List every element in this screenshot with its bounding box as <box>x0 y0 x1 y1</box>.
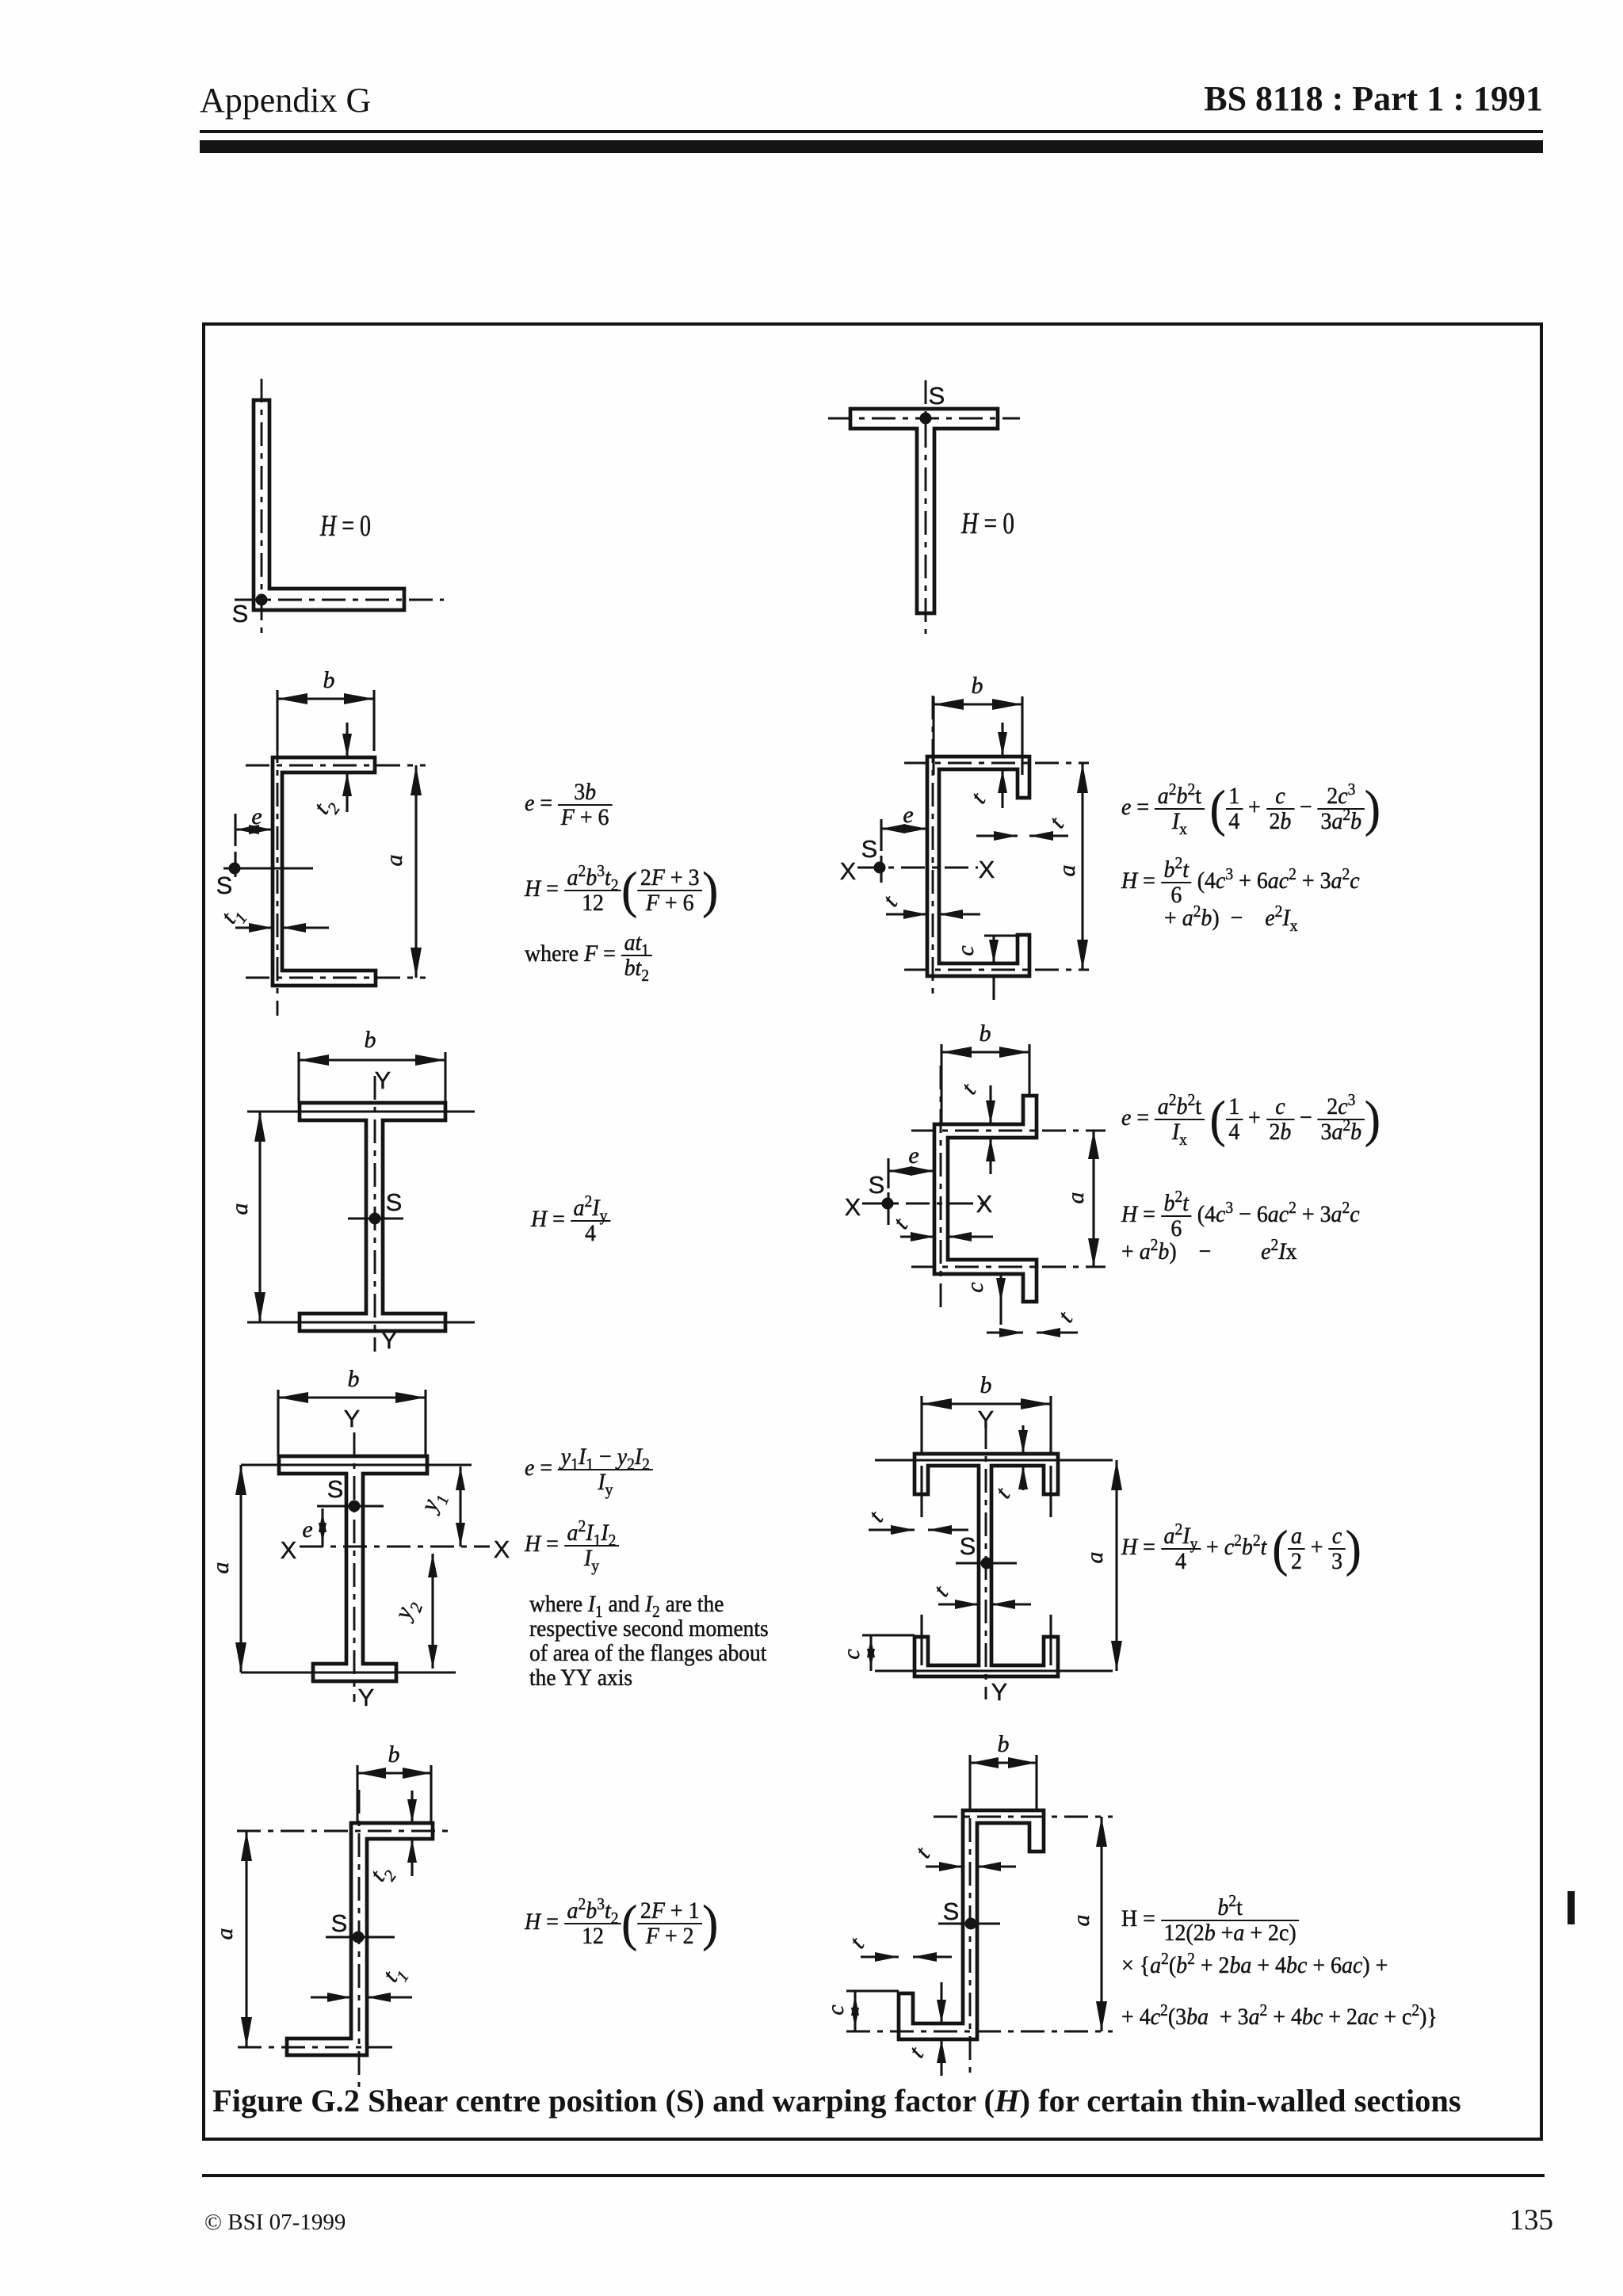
label a (I-section) <box>227 1203 253 1215</box>
formula H line3 (lipped Z row5 right) <box>1121 2005 1438 2029</box>
svg-text:H = 0: H = 0 <box>319 509 371 543</box>
centerline of bottom flange (I-section) <box>247 1321 475 1323</box>
formula H (unequal I row4 left) <box>525 1521 619 1570</box>
label S (unequal I) <box>327 1475 344 1503</box>
svg-text:X: X <box>845 1193 861 1221</box>
svg-text:a: a <box>212 1928 238 1940</box>
formula e (lipped channel inward row2 right) <box>1121 784 1381 835</box>
dimension b (channel): line and arrows <box>277 693 374 704</box>
svg-text:Y: Y <box>375 1066 391 1094</box>
svg-text:e: e <box>903 802 913 828</box>
svg-text:t: t <box>990 1482 1015 1503</box>
formula H (lipped I row4 right) <box>1121 1524 1361 1575</box>
svg-text:b: b <box>980 1372 992 1398</box>
svg-text:t: t <box>888 1213 913 1234</box>
label e (lipped channel inward) <box>903 802 913 828</box>
centerline of channel bottom flange <box>246 977 426 979</box>
shear centre dot S (lipped Z) <box>965 1918 977 1930</box>
label t web (lipped I) <box>928 1581 953 1601</box>
formula H (Z row5 left) <box>525 1898 718 1950</box>
dimension y2 (unequal I) <box>428 1554 437 1669</box>
formula H line2 (lipped channel outward row3 right) <box>1121 1240 1296 1264</box>
svg-text:t: t <box>910 1842 935 1863</box>
dimension c lip (lipped channel outward) <box>987 1274 1020 1325</box>
formula H line1 (lipped channel inward row2 right) <box>1121 858 1360 907</box>
svg-text:b: b <box>980 1020 991 1047</box>
svg-text:t2: t2 <box>308 791 344 822</box>
dimension b (Z): extension lines <box>357 1765 431 1823</box>
shear centre dot S (unequal I) <box>349 1501 361 1512</box>
label b (I-section) <box>365 1027 376 1053</box>
axis line through S (lipped Z) <box>938 1922 1000 1924</box>
label t flange (lipped I) <box>990 1482 1015 1503</box>
svg-text:S: S <box>327 1475 344 1503</box>
dimension t1 (Z web thickness) arrows <box>311 1993 412 2002</box>
label t lip (lipped channel inward) <box>1044 812 1069 833</box>
label X right (unequal I) <box>494 1535 510 1563</box>
axis line through S (channel) <box>223 867 313 869</box>
dimension b (unequal I): line and arrows <box>278 1392 426 1403</box>
svg-text:S: S <box>232 600 249 627</box>
label S (angle) <box>232 600 249 627</box>
svg-text:S: S <box>929 382 945 410</box>
centerline of bottom flange (unequal I) <box>241 1671 456 1673</box>
label Y top (lipped I) <box>978 1405 995 1433</box>
svg-text:a: a <box>1063 1192 1089 1204</box>
axis X-X (lipped channel inward) <box>857 867 978 869</box>
shear centre dot S (lipped channel inward) <box>874 862 886 874</box>
formula H (I-section row3 left) <box>531 1196 610 1245</box>
svg-text:S: S <box>216 871 233 899</box>
dimension b (lipped Z): line and arrows <box>970 1757 1037 1768</box>
svg-text:S: S <box>331 1909 348 1937</box>
section lipped channel outward (row3 right) outline <box>934 1096 1037 1302</box>
centerline of top flange (lipped channel inward) <box>904 762 1089 765</box>
shear centre dot S (tee) <box>920 413 932 425</box>
dimension b (Z): line and arrows <box>357 1768 431 1779</box>
centerline vertical of channel web <box>277 696 279 1016</box>
section unequal-flange I (row4 left) outline <box>279 1456 427 1681</box>
label b (lipped channel outward) <box>980 1020 991 1047</box>
svg-text:X: X <box>840 857 857 885</box>
header left: Appendix G <box>200 80 371 120</box>
centerline of channel top flange <box>246 765 426 767</box>
label Y top (I-section) <box>375 1066 391 1094</box>
dimension t bottom flange arrows (lipped Z) <box>937 1982 946 2076</box>
svg-text:a: a <box>381 855 407 867</box>
footer rule <box>202 2174 1545 2177</box>
svg-text:t: t <box>1044 812 1069 833</box>
label y2 (unequal I) <box>388 1595 426 1627</box>
dimension a (unequal I) <box>235 1465 246 1672</box>
dimension t lip arrows (lipped Z) <box>861 1952 952 1962</box>
svg-text:t: t <box>863 1506 888 1527</box>
svg-text:t: t <box>903 2042 929 2062</box>
label S (lipped channel outward) <box>869 1171 885 1199</box>
formula e (unequal I row4 left) <box>525 1445 653 1494</box>
dimension a (channel) <box>411 765 422 978</box>
formula H line1 (lipped Z row5 right) <box>1121 1896 1299 1945</box>
label c (lipped channel outward) <box>962 1282 988 1292</box>
axis line through S (lipped I) <box>956 1562 1017 1564</box>
label t1 (Z) <box>377 1959 412 1990</box>
dimension b (lipped channel inward): extension lines <box>934 696 1022 775</box>
section lipped Z (row5 right) outline <box>899 1810 1044 2039</box>
svg-text:c: c <box>953 945 979 955</box>
svg-text:S: S <box>861 835 878 863</box>
svg-text:Y: Y <box>381 1326 398 1354</box>
axis line through S (unequal I) <box>317 1505 384 1507</box>
centerline of Z bottom flange <box>238 2046 395 2049</box>
svg-text:e: e <box>302 1516 312 1543</box>
label a (lipped channel inward) <box>1054 865 1080 877</box>
label Y bottom (unequal I) <box>358 1684 375 1711</box>
dimension t2 (Z flange thickness) arrows <box>407 1791 417 1876</box>
label X left (lipped channel outward) <box>845 1193 861 1221</box>
svg-text:y1: y1 <box>414 1488 453 1519</box>
dimension t web arrows (lipped I) <box>938 1600 1031 1609</box>
svg-text:e: e <box>251 803 262 830</box>
dimension t web arrows (lipped Z) <box>926 1862 1016 1871</box>
label S (lipped Z) <box>943 1897 960 1925</box>
label Y top (unequal I) <box>344 1405 361 1432</box>
label t1 (channel) <box>216 901 250 932</box>
label c (lipped I) <box>838 1649 865 1659</box>
header right: BS 8118 : Part 1 : 1991 <box>1204 78 1543 119</box>
centerline of top flange (I-section) <box>247 1110 475 1112</box>
label X left (lipped channel inward) <box>840 857 857 885</box>
axis Y-Y vertical centerline (unequal I) <box>353 1432 356 1702</box>
svg-text:b: b <box>998 1731 1010 1757</box>
shear centre dot S (channel) <box>229 863 241 875</box>
section tee T (row1 right) outline <box>850 409 998 613</box>
header thin rule <box>200 130 1543 133</box>
svg-text:X: X <box>494 1535 510 1563</box>
dimension b (channel): extension lines <box>277 690 374 751</box>
note text (unequal I row4 left) <box>529 1592 769 1691</box>
axis Y-Y vertical centerline (I-section) <box>374 1076 376 1352</box>
dimension t flange arrows (lipped channel outward) <box>986 1085 995 1174</box>
label X left (unequal I) <box>281 1536 297 1564</box>
label e (channel) <box>251 803 262 830</box>
dimension t flange arrow (lipped channel inward) <box>998 723 1007 808</box>
label S (lipped I) <box>960 1532 976 1560</box>
svg-text:a: a <box>227 1203 253 1215</box>
label t web (lipped Z) <box>910 1842 935 1863</box>
label b (lipped Z) <box>998 1731 1010 1757</box>
label Y bottom (lipped I) <box>991 1678 1008 1706</box>
dimension b (lipped channel outward): line and arrows <box>941 1047 1029 1058</box>
dimension t web arrows (lipped channel outward) <box>900 1232 993 1241</box>
dimension t left lip arrows (lipped I) <box>869 1525 968 1535</box>
section angle L (row1 left) outline <box>254 400 404 610</box>
svg-text:X: X <box>979 856 995 883</box>
section channel (row2 left) outline <box>273 757 376 986</box>
svg-text:S: S <box>869 1171 885 1199</box>
centerline of top flange (unequal I) <box>241 1463 472 1466</box>
section Z (row5 left) outline <box>287 1823 433 2055</box>
dimension b (unequal I): extension lines <box>278 1390 426 1456</box>
svg-text:Y: Y <box>358 1684 375 1711</box>
label a (Z) <box>212 1928 238 1940</box>
centerline of top flange (lipped channel outward) <box>911 1130 1106 1132</box>
label S (Z) <box>331 1909 348 1937</box>
footer copyright <box>204 2210 346 2236</box>
formula H line2 (lipped Z row5 right) <box>1121 1954 1388 1978</box>
label b (Z) <box>388 1741 400 1768</box>
label b (unequal I) <box>348 1366 360 1392</box>
label a (unequal I) <box>208 1562 234 1574</box>
formula H line1 (lipped channel outward row3 right) <box>1121 1192 1360 1241</box>
label t web (lipped channel inward) <box>877 891 903 911</box>
figure frame box <box>202 322 1543 2141</box>
svg-text:a: a <box>1082 1552 1108 1564</box>
formula e (channel row2 left) <box>525 780 612 830</box>
dimension a (lipped channel outward) <box>1088 1131 1099 1267</box>
svg-text:t: t <box>877 891 903 911</box>
label S (channel) <box>216 871 233 899</box>
axis Y-Y vertical centerline (lipped I) <box>985 1425 987 1699</box>
svg-text:t: t <box>956 1078 981 1099</box>
centerline vertical of angle leg <box>261 379 263 634</box>
label S (I-section) <box>386 1188 403 1216</box>
svg-text:t2: t2 <box>365 1859 400 1890</box>
label b (lipped I) <box>980 1372 992 1398</box>
centerline of bottom flange (lipped channel outward) <box>911 1266 1106 1268</box>
shear centre dot S (angle) <box>256 594 268 606</box>
label b (channel) <box>323 667 335 693</box>
svg-text:b: b <box>388 1741 400 1768</box>
vertical line through S (lipped channel inward) <box>880 856 882 883</box>
svg-text:b: b <box>365 1027 376 1053</box>
dimension a (lipped I) <box>1111 1460 1122 1671</box>
centerline vertical of lipped Z web <box>969 1775 972 2076</box>
label t lip (lipped channel outward) <box>1052 1306 1078 1327</box>
centerline vertical of Z web <box>358 1790 361 2087</box>
label X right (lipped channel outward) <box>976 1190 993 1218</box>
dimension t flange arrow (lipped I) <box>1018 1425 1028 1490</box>
dimension c (lipped Z) <box>846 1991 899 2031</box>
label t flange (lipped channel inward) <box>965 788 991 808</box>
dimension t2 (channel flange thickness) arrows <box>342 723 352 812</box>
dimension b (lipped channel inward): line and arrows <box>934 699 1022 710</box>
svg-text:c: c <box>823 2004 849 2015</box>
figure caption <box>212 2082 1461 2119</box>
dimension b (lipped I): extension lines <box>922 1396 1051 1454</box>
dimension a (lipped channel inward) <box>1077 763 1088 970</box>
revision mark <box>1568 1891 1575 1924</box>
dimension a (I-section) <box>254 1112 265 1322</box>
shear centre dot S (I-section) <box>369 1213 381 1225</box>
svg-text:e: e <box>908 1142 918 1169</box>
label X right (lipped channel inward) <box>979 856 995 883</box>
label S (tee) <box>929 382 945 410</box>
axis line through S (Z) <box>326 1936 395 1938</box>
dimension b (lipped I): line and arrows <box>922 1398 1051 1409</box>
label t2 (Z) <box>365 1859 400 1890</box>
svg-text:b: b <box>323 667 335 693</box>
section lipped channel inward (row2 right) outline <box>927 757 1029 976</box>
centerline vertical of web (lipped channel inward) <box>932 696 934 1000</box>
dimension e (channel) <box>235 814 273 846</box>
svg-text:Y: Y <box>978 1405 995 1433</box>
svg-text:t1: t1 <box>377 1959 412 1990</box>
vertical line through shear centre (channel) <box>234 852 236 877</box>
formula e (lipped channel outward row3 right) <box>1121 1094 1381 1146</box>
axis X-X (lipped channel outward) <box>862 1203 987 1205</box>
centerline vertical of web (lipped channel outward) <box>940 1066 942 1307</box>
dimension c (lipped I) <box>862 1635 915 1671</box>
label t flange (lipped channel outward) <box>956 1078 981 1099</box>
label t lip (lipped Z) <box>844 1932 869 1953</box>
svg-text:a: a <box>1068 1915 1094 1927</box>
formula H (channel row2 left) <box>525 865 718 917</box>
label c (lipped channel inward) <box>953 945 979 955</box>
label e (unequal I) <box>302 1516 312 1543</box>
label H = 0 (tee) <box>960 507 1014 540</box>
svg-text:X: X <box>976 1190 993 1218</box>
centerline horizontal of angle leg <box>235 599 444 601</box>
svg-text:b: b <box>348 1366 360 1392</box>
svg-text:t: t <box>844 1932 869 1953</box>
vertical line through S (lipped channel outward) <box>887 1192 889 1225</box>
dimension e (lipped channel outward) <box>888 1158 934 1188</box>
formula H line2 (lipped channel inward row2 right) <box>1164 906 1297 930</box>
svg-text:y2: y2 <box>388 1595 426 1627</box>
header thick rule <box>200 140 1543 153</box>
dimension a (Z) <box>241 1831 252 2047</box>
svg-text:t: t <box>965 788 991 808</box>
shear centre dot S (lipped channel outward) <box>882 1198 894 1210</box>
label t bottom flange (lipped Z) <box>903 2042 929 2062</box>
label y1 (unequal I) <box>414 1488 453 1519</box>
footer page number <box>1510 2203 1554 2237</box>
label H = 0 (angle) <box>319 509 371 543</box>
centerline of bottom flange (lipped channel inward) <box>904 969 1089 971</box>
centerline horizontal of tee flange <box>828 418 1020 420</box>
svg-text:t: t <box>1052 1306 1078 1327</box>
label Y bottom (I-section) <box>381 1326 398 1354</box>
centerline of Z top flange <box>237 1830 454 1833</box>
section lipped I (row4 right) outline <box>915 1454 1058 1676</box>
label c (lipped Z) <box>823 2004 849 2015</box>
shear centre dot S (Z) <box>353 1932 365 1943</box>
svg-text:c: c <box>962 1282 988 1292</box>
svg-text:a: a <box>1054 865 1080 877</box>
svg-text:S: S <box>960 1532 976 1560</box>
label e (lipped channel outward) <box>908 1142 918 1169</box>
label a (channel) <box>381 855 407 867</box>
dimension e (lipped channel inward) <box>881 819 927 851</box>
label S (lipped channel inward) <box>861 835 878 863</box>
label t web (lipped channel outward) <box>888 1213 913 1234</box>
section I (row3 left) outline <box>300 1103 445 1331</box>
shear centre dot S (lipped I) <box>981 1558 993 1569</box>
dimension b (I-section): extension lines <box>299 1052 445 1103</box>
centerline of bottom flange (lipped I) <box>875 1669 1113 1672</box>
label t2 (channel) <box>308 791 344 822</box>
vertical lines through lips (lipped I) <box>922 1466 1051 1665</box>
dimension t1 (channel web thickness) arrows <box>235 923 329 933</box>
centerline of lipped Z top flange <box>934 1816 1113 1818</box>
svg-text:c: c <box>838 1649 865 1659</box>
dimension t lip arrows (lipped channel inward) <box>976 831 1068 841</box>
centerline vertical of tee stem <box>925 380 927 634</box>
centerline of lipped Z bottom flange <box>846 2031 1113 2033</box>
centerline of top flange (lipped I) <box>875 1459 1113 1461</box>
svg-text:a: a <box>208 1562 234 1574</box>
svg-text:S: S <box>386 1188 403 1216</box>
svg-text:X: X <box>281 1536 297 1564</box>
label t left lip (lipped I) <box>863 1506 888 1527</box>
dimension a (lipped Z) <box>1096 1817 1107 2031</box>
axis X-X (unequal I) <box>300 1546 490 1548</box>
svg-text:b: b <box>972 673 983 699</box>
dimension y1 (unequal I) <box>456 1466 465 1547</box>
dimension b (lipped Z): extension lines <box>970 1755 1037 1810</box>
formula where F (channel row2 left) <box>525 931 652 980</box>
svg-text:Y: Y <box>991 1678 1008 1706</box>
label a (lipped I) <box>1082 1552 1108 1564</box>
svg-text:H = 0: H = 0 <box>960 507 1014 540</box>
dimension b (lipped channel outward): extension lines <box>941 1044 1029 1124</box>
dimension t web arrows (lipped channel inward) <box>886 910 980 919</box>
label a (lipped Z) <box>1068 1915 1094 1927</box>
label a (lipped channel outward) <box>1063 1192 1089 1204</box>
svg-text:S: S <box>943 1897 960 1925</box>
dimension e (unequal I) <box>319 1508 327 1547</box>
svg-text:t: t <box>928 1581 953 1601</box>
svg-text:Y: Y <box>344 1405 361 1432</box>
dimension t lip arrows (lipped channel outward) <box>987 1328 1078 1337</box>
dimension c lip (lipped channel inward) <box>984 936 1018 1000</box>
label b (lipped channel inward) <box>972 673 983 699</box>
axis line through S (I-section) <box>348 1217 403 1219</box>
dimension b (I-section): line and arrows <box>299 1055 445 1066</box>
